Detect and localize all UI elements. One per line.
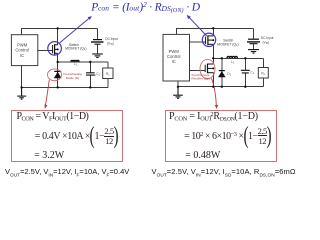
wire right input rail [176,28,253,34]
wire right battery stem [253,44,255,50]
svg-text:(VIN): (VIN) [107,41,114,46]
wire left switch node to output [58,61,108,63]
capacitor C1 right [241,70,250,73]
wire right ground rail [178,86,263,88]
PWM control IC box U2 right [163,34,190,81]
node diode anode / ground rail left [57,86,59,88]
blue arrow left circuit to formula [60,18,91,44]
node Q1 drain / input rail left [57,27,59,29]
svg-text:C1: C1 [250,70,254,75]
node ground rail at PWM left [20,86,22,88]
wire right pwm to ground rail [177,81,179,87]
label DC input left [105,37,118,46]
node C1 bottom left [89,86,91,88]
wire right Q2 source to ground rail [212,73,214,87]
svg-text:(VIN): (VIN) [263,41,270,46]
svg-text:RL: RL [261,71,265,76]
svg-text:IC: IC [20,53,24,58]
wire right diode branch [221,58,223,86]
wire right Q1 source to Q2 drain [212,44,214,64]
wire right gate2 [190,70,206,72]
wire left pwm to ground rail [21,66,23,88]
wire left Q1 source to ground rail through diode [57,53,59,87]
node C1 top left [89,61,91,63]
red ellipse around diode [48,69,62,81]
caption right [152,167,296,178]
label PWM Control IC left [15,43,29,58]
blue arrow right circuit to formula [189,17,207,36]
wire right switch node to output [213,57,263,59]
svg-text:L1: L1 [231,60,235,64]
node switch node left [57,61,59,63]
node C1 top right [244,57,246,59]
wire left ground rail [22,86,108,88]
label freewheeling diode [63,72,82,80]
wire right cap leads [244,58,246,86]
inductor L1 right [227,56,237,58]
svg-text:RL: RL [106,72,110,77]
red arrow to left formula box [45,80,49,107]
inductor L1 left [71,60,79,61]
resistor RL right [258,68,268,79]
svg-text:MOSFET (Q1): MOSFET (Q1) [217,42,238,46]
wire left battery stem [97,44,99,54]
node D1 anode right [221,86,223,88]
ground under battery left [92,54,103,58]
wire right resistor bottom lead [262,78,264,87]
svg-text:MOSFET (Q1): MOSFET (Q1) [65,47,86,51]
svg-text:IC: IC [172,59,176,64]
svg-text:L1: L1 [74,62,78,67]
wire right resistor top lead [262,58,264,67]
transistor Q1 left MOSFET symbol [53,44,58,54]
wire right gate1 [190,41,206,43]
node C1 bottom right [244,86,246,88]
node Q2 source / ground rail right [212,86,214,88]
formula box right [165,110,277,161]
transistor Q1 right MOSFET symbol [206,35,214,45]
ground bottom left [17,87,26,99]
wire left input rail [21,28,97,34]
node switch node right [212,57,214,59]
wire left gate [38,50,53,52]
capacitor C1 left [86,73,95,75]
wire left resistor top lead [107,62,109,68]
formula box left [11,110,123,162]
blue circle around Q1 right [202,33,215,46]
label PWM Control IC right [167,49,181,64]
wire right Q1 drain [212,28,214,36]
diode D freewheeling left [54,70,61,72]
transistor Q2 right sync rectifier MOSFET symbol [205,64,213,74]
title formula P_con [91,0,200,14]
resistor RL left [103,68,113,79]
blue circle around Q1 left [48,42,62,56]
battery V_IN right [247,39,260,44]
diode D1 body diode right [219,70,225,72]
node D1 cathode right [221,57,223,59]
wire left battery lead [97,28,99,39]
ground bottom right [173,87,183,99]
label DC input right [261,36,274,45]
label switch mosfet Q1 left [65,43,86,51]
node ground rail at PWM right [177,86,179,88]
caption left [5,167,129,178]
red arrow to right formula box [212,78,217,107]
label switch mosfet Q1 right [217,39,238,47]
svg-text:DC Input: DC Input [261,36,274,40]
ground under battery right [248,50,259,54]
PWM control IC box U1 left [11,35,37,66]
svg-text:Diode (D): Diode (D) [66,76,79,80]
wire right battery lead [253,28,255,38]
svg-text:Rectifier (Q2): Rectifier (Q2) [191,76,209,80]
battery V_IN left [91,40,104,45]
svg-text:DC Input: DC Input [105,37,118,41]
label synchronous rectifier Q2 [191,73,210,81]
node Q1 drain / input rail right [212,27,214,29]
wire left Q1 drain [57,28,59,44]
red ellipse around Q2 [200,59,215,78]
wire left resistor bottom lead [107,79,109,88]
svg-text:C1: C1 [96,72,100,77]
wire left cap leads [89,62,91,87]
svg-text:D1: D1 [227,72,231,77]
